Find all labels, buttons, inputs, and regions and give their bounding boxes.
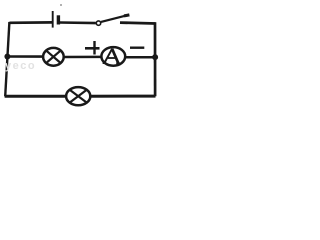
svg-text:yeco: yeco — [5, 60, 36, 72]
